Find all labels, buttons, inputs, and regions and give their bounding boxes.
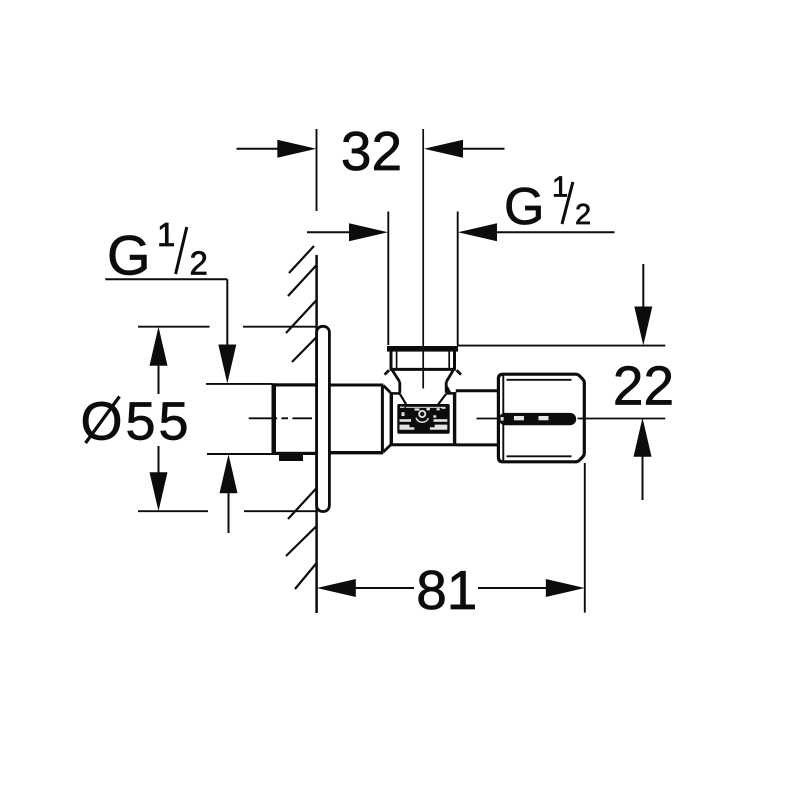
svg-text:32: 32 <box>341 120 402 182</box>
dim G1/2 top: dimension line + arrows <box>307 223 615 241</box>
dim G1/2 left: leader + arrows <box>105 279 237 533</box>
valve body block <box>390 392 457 446</box>
wall pipe G1/2 (threaded inlet into wall) <box>272 383 318 461</box>
centerline left (dash-dot axis) <box>249 417 312 419</box>
svg-text:2: 2 <box>575 199 591 231</box>
knob slot <box>499 413 576 425</box>
dim G1/2 top: extension lines <box>388 212 457 346</box>
dim 32: extension line left <box>316 129 318 211</box>
svg-text:22: 22 <box>613 355 674 417</box>
centerline right <box>477 418 666 420</box>
pipe edge extension lines <box>206 384 273 454</box>
svg-text:81: 81 <box>416 559 477 621</box>
dim 22: dimension line + arrows <box>634 264 653 500</box>
svg-text:1: 1 <box>552 172 568 204</box>
svg-text:G: G <box>504 178 544 236</box>
top port: centerline <box>422 129 424 389</box>
dim G1/2 left: label <box>107 216 208 286</box>
svg-text:1: 1 <box>157 216 175 253</box>
dim G1/2 top: label <box>504 172 591 237</box>
dim D55: dimension line + arrows <box>150 327 168 512</box>
svg-text:O55: O55 <box>81 392 192 452</box>
dim D55: extension lines <box>138 327 317 512</box>
top port: nut cap band <box>387 346 458 352</box>
cylinder flange-to-body <box>330 385 391 453</box>
top port: nut body <box>390 352 456 370</box>
svg-text:2: 2 <box>190 244 208 281</box>
right connector <box>456 391 499 445</box>
dim 81: dimension line + arrows <box>317 579 585 597</box>
knob (handle) <box>498 374 584 462</box>
flange rosette (D55) <box>317 326 330 511</box>
svg-text:G: G <box>107 223 151 286</box>
dim 32: dimension line + arrows <box>237 140 505 158</box>
wall line <box>315 255 318 613</box>
logo box (dark label with GROHE emblem) <box>397 404 449 434</box>
dim 81: extension line right <box>584 463 586 613</box>
top port: taper + neck + flare <box>385 370 461 393</box>
wall hatching <box>286 246 317 589</box>
dim 22: extension lines <box>457 345 665 347</box>
